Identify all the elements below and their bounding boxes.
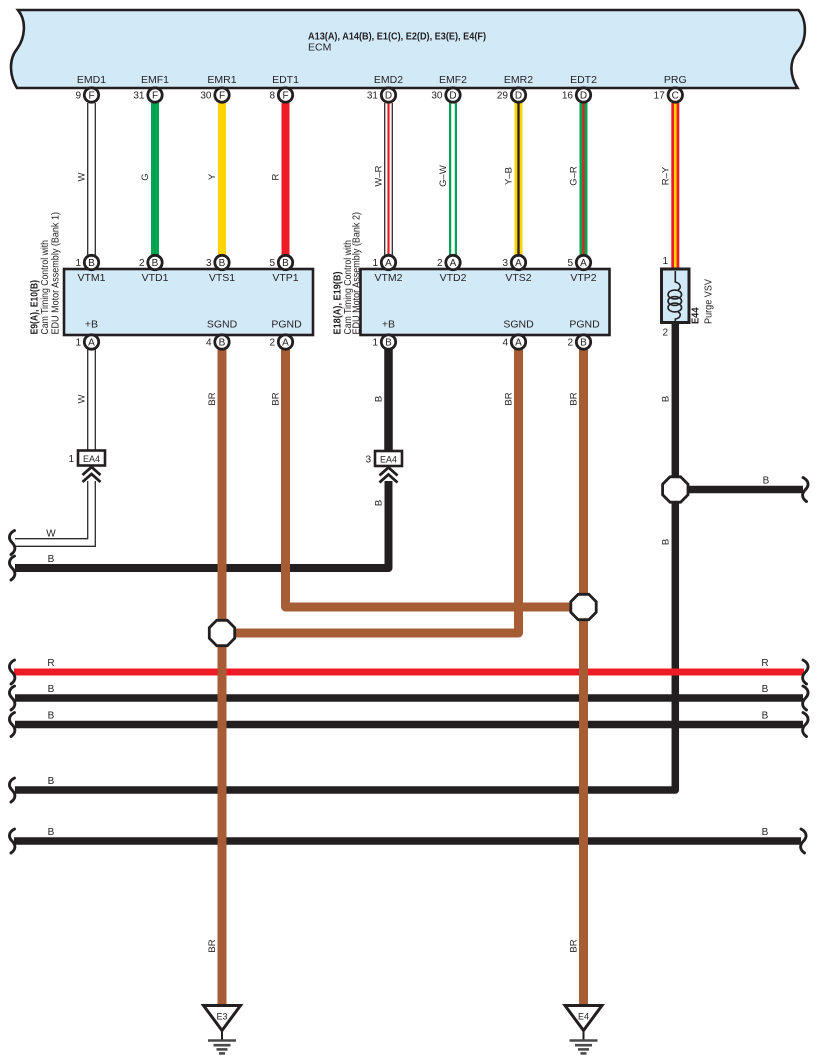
brace B left 568 xyxy=(9,556,14,580)
svg-text:F: F xyxy=(152,91,158,102)
ECM pin EMR2 29(D) xyxy=(497,74,533,102)
brace B right 724 xyxy=(803,713,808,737)
svg-text:30: 30 xyxy=(200,91,212,102)
brace R right xyxy=(803,660,808,684)
svg-text:PGND: PGND xyxy=(569,319,600,331)
svg-text:VTD2: VTD2 xyxy=(440,272,467,284)
wire BR PGND2 to ground E4 xyxy=(569,349,584,1006)
brace R left xyxy=(9,660,14,684)
ground E4 xyxy=(565,1006,602,1054)
svg-text:16: 16 xyxy=(562,91,574,102)
purge VSV coil xyxy=(668,271,682,321)
box top pin 2(B) xyxy=(139,255,162,269)
svg-text:B: B xyxy=(660,396,671,402)
purge VSV pin numbers xyxy=(662,256,668,339)
svg-text:R–Y: R–Y xyxy=(660,166,671,185)
brace B left 841 xyxy=(9,829,14,853)
svg-text:EDT2: EDT2 xyxy=(570,74,597,86)
svg-text:B: B xyxy=(763,476,770,487)
svg-text:B: B xyxy=(762,827,769,838)
ECM box xyxy=(11,10,805,88)
svg-text:B: B xyxy=(48,554,55,565)
component box E9/E10 Bank1 xyxy=(64,269,313,335)
svg-text:B: B xyxy=(48,776,55,787)
box bottom pin 2(B) xyxy=(567,335,590,349)
svg-text:A: A xyxy=(580,258,587,269)
svg-text:A: A xyxy=(282,338,289,349)
svg-text:A13(A), A14(B), E1(C), E2(D),: A13(A), A14(B), E1(C), E2(D), E3(E), E4(… xyxy=(308,31,486,43)
wire W +B1 to EA4-1 xyxy=(77,349,96,451)
brace B right 489 xyxy=(803,478,808,502)
ECM title xyxy=(308,31,486,54)
purge VSV rotated label xyxy=(691,279,715,324)
ECM pin EDT1 8(F) xyxy=(269,74,299,102)
svg-text:EMD2: EMD2 xyxy=(374,74,403,86)
svg-text:A: A xyxy=(88,338,95,349)
wire B bus 698 xyxy=(15,684,803,698)
label B bus 568 xyxy=(48,554,55,565)
box top pin 1(A) xyxy=(372,255,395,269)
svg-text:2: 2 xyxy=(139,258,145,269)
wire B VSV2 down to corner-left xyxy=(15,322,675,790)
svg-text:EDU Motor Assembly (Bank 2): EDU Motor Assembly (Bank 2) xyxy=(352,212,363,335)
svg-text:B: B xyxy=(762,711,769,722)
wire B EA4-3 down-left xyxy=(15,481,389,568)
svg-text:EMR1: EMR1 xyxy=(207,74,236,86)
svg-text:W: W xyxy=(77,172,88,181)
svg-text:B: B xyxy=(88,258,95,269)
wire G-W EMF2-VTD2 xyxy=(438,103,453,255)
svg-text:BR: BR xyxy=(271,392,282,405)
wire B bus 841 xyxy=(14,827,801,841)
svg-text:8: 8 xyxy=(269,91,275,102)
svg-text:SGND: SGND xyxy=(207,319,238,331)
svg-text:B: B xyxy=(48,684,55,695)
svg-text:E44: E44 xyxy=(691,307,702,324)
svg-text:PRG: PRG xyxy=(664,74,687,86)
component box E18/E19 Bank2 xyxy=(361,269,610,335)
brace B left 698 xyxy=(9,686,14,710)
svg-text:E9(A), E10(B): E9(A), E10(B) xyxy=(30,280,41,335)
ECM pin EMD2 31(D) xyxy=(367,74,403,102)
svg-text:R: R xyxy=(761,658,768,669)
wire Y-B EMR2-VTS2 xyxy=(504,103,519,255)
wire BR SGND1 to ground E3 xyxy=(207,349,222,1006)
svg-text:B: B xyxy=(152,258,159,269)
wire BR PGND1 to junction xyxy=(271,349,584,607)
box top pin 3(A) xyxy=(502,255,525,269)
svg-text:1: 1 xyxy=(372,338,378,349)
ECM pin EMF2 30(D) xyxy=(431,74,467,102)
svg-text:5: 5 xyxy=(567,258,573,269)
connector EA4 pin3 xyxy=(365,451,402,483)
junction node PGND xyxy=(571,594,596,619)
svg-text:A: A xyxy=(450,258,457,269)
brace W left xyxy=(9,531,14,555)
svg-text:D: D xyxy=(385,91,392,102)
E9/E10 rotated label xyxy=(30,212,62,335)
box top pin 3(B) xyxy=(206,255,229,269)
svg-text:1: 1 xyxy=(75,338,81,349)
svg-text:VTP1: VTP1 xyxy=(272,272,298,284)
ground E3 xyxy=(204,1006,241,1054)
svg-text:EMF2: EMF2 xyxy=(439,74,467,86)
E18/E19 rotated label xyxy=(333,212,363,335)
box bottom pin 1(A) xyxy=(75,335,98,349)
svg-text:1: 1 xyxy=(372,258,378,269)
svg-text:R: R xyxy=(47,658,54,669)
svg-text:3: 3 xyxy=(206,258,212,269)
svg-text:E4: E4 xyxy=(578,1012,589,1022)
svg-text:D: D xyxy=(449,91,456,102)
svg-text:PGND: PGND xyxy=(271,319,302,331)
svg-text:1: 1 xyxy=(662,256,668,267)
wire Y EMR1-VTS1 xyxy=(207,103,222,255)
svg-text:1: 1 xyxy=(68,454,74,465)
wire G-R EDT2-VTP2 xyxy=(569,103,584,255)
wire R-Y PRG-VSV xyxy=(660,103,675,269)
svg-text:F: F xyxy=(219,91,225,102)
svg-text:29: 29 xyxy=(497,91,509,102)
svg-text:EDT1: EDT1 xyxy=(272,74,299,86)
E18/E19 labels xyxy=(374,272,600,331)
brace B right 841 xyxy=(801,829,806,853)
svg-text:D: D xyxy=(515,91,522,102)
svg-text:EMD1: EMD1 xyxy=(77,74,106,86)
purge VSV E44 box xyxy=(662,269,690,323)
svg-text:+B: +B xyxy=(85,319,98,331)
wire W-R EMD2-VTM2 xyxy=(374,103,393,255)
connector EA4 pin1 xyxy=(68,451,105,483)
wire B +B2 to EA4-3 xyxy=(374,349,389,506)
svg-text:B: B xyxy=(282,258,289,269)
svg-text:G: G xyxy=(140,173,151,180)
svg-text:2: 2 xyxy=(269,338,275,349)
svg-text:Y–B: Y–B xyxy=(504,167,515,185)
ECM pin EMD1 9(F) xyxy=(75,74,106,102)
box bottom pin 1(B) xyxy=(372,335,395,349)
svg-text:2: 2 xyxy=(662,328,668,339)
wire B junction branch right xyxy=(675,476,803,490)
svg-text:EA4: EA4 xyxy=(83,454,100,464)
box top pin 2(A) xyxy=(437,255,460,269)
svg-text:BR: BR xyxy=(569,939,580,952)
svg-text:VTS1: VTS1 xyxy=(209,272,235,284)
label B bus 790 xyxy=(48,776,55,787)
svg-text:31: 31 xyxy=(367,91,379,102)
svg-text:VTM1: VTM1 xyxy=(77,272,105,284)
svg-text:1: 1 xyxy=(75,258,81,269)
svg-text:B: B xyxy=(374,500,385,506)
brace B left 790 xyxy=(9,778,14,802)
svg-text:SGND: SGND xyxy=(503,319,534,331)
svg-text:3: 3 xyxy=(502,258,508,269)
wire R bus 672 xyxy=(14,658,804,672)
svg-text:EDU Motor Assembly (Bank 1): EDU Motor Assembly (Bank 1) xyxy=(51,212,62,335)
svg-text:2: 2 xyxy=(567,338,573,349)
junction node B xyxy=(663,477,688,502)
svg-text:2: 2 xyxy=(437,258,443,269)
wire W EA4-1 down-left xyxy=(15,481,95,546)
svg-text:Purge VSV: Purge VSV xyxy=(704,279,715,324)
svg-text:W: W xyxy=(46,529,56,540)
svg-text:W–R: W–R xyxy=(374,165,385,186)
svg-text:B: B xyxy=(48,711,55,722)
box bottom pin 2(A) xyxy=(269,335,292,349)
svg-text:F: F xyxy=(88,91,94,102)
svg-text:4: 4 xyxy=(502,338,508,349)
svg-text:W: W xyxy=(77,394,88,403)
svg-text:A: A xyxy=(515,338,522,349)
svg-text:B: B xyxy=(219,338,226,349)
svg-text:B: B xyxy=(762,684,769,695)
svg-text:5: 5 xyxy=(269,258,275,269)
svg-text:17: 17 xyxy=(654,91,666,102)
svg-text:31: 31 xyxy=(133,91,145,102)
svg-text:B: B xyxy=(219,258,226,269)
ECM pin EDT2 16(D) xyxy=(562,74,597,102)
svg-text:Y: Y xyxy=(207,173,218,180)
svg-text:B: B xyxy=(660,539,671,545)
svg-text:+B: +B xyxy=(382,319,395,331)
brace B left 724 xyxy=(9,713,14,737)
svg-text:B: B xyxy=(580,338,587,349)
svg-text:VTM2: VTM2 xyxy=(374,272,402,284)
junction node SGND xyxy=(209,620,234,645)
svg-text:EMF1: EMF1 xyxy=(141,74,169,86)
wire BR SGND2 to junction xyxy=(222,349,519,633)
E9/E10 labels xyxy=(77,272,302,331)
svg-text:G–R: G–R xyxy=(569,166,580,186)
ECM pin PRG 17(C) xyxy=(654,74,687,102)
box top pin 5(B) xyxy=(269,255,292,269)
brace B right 698 xyxy=(803,686,808,710)
svg-text:B: B xyxy=(385,338,392,349)
svg-text:4: 4 xyxy=(206,338,212,349)
svg-text:B: B xyxy=(374,396,385,402)
svg-text:B: B xyxy=(48,827,55,838)
svg-text:EA4: EA4 xyxy=(380,455,397,465)
svg-text:BR: BR xyxy=(207,939,218,952)
wire R EDT1-VTP1 xyxy=(271,103,286,255)
svg-text:A: A xyxy=(515,258,522,269)
box bottom pin 4(B) xyxy=(206,335,229,349)
svg-text:30: 30 xyxy=(431,91,443,102)
svg-text:BR: BR xyxy=(569,392,580,405)
svg-text:A: A xyxy=(385,258,392,269)
box top pin 5(A) xyxy=(567,255,590,269)
svg-text:EMR2: EMR2 xyxy=(504,74,533,86)
ECM pin EMR1 30(F) xyxy=(200,74,236,102)
wire W EMD1-VTM1 xyxy=(77,103,96,255)
svg-text:ECM: ECM xyxy=(308,42,331,54)
svg-text:VTP2: VTP2 xyxy=(570,272,596,284)
svg-text:BR: BR xyxy=(504,392,515,405)
wire B bus 724 xyxy=(15,711,803,725)
svg-text:E18(A), E19(B): E18(A), E19(B) xyxy=(333,272,344,335)
svg-text:E3: E3 xyxy=(216,1012,227,1022)
svg-text:9: 9 xyxy=(75,91,81,102)
svg-text:VTS2: VTS2 xyxy=(505,272,531,284)
svg-text:Cam Timing Control with: Cam Timing Control with xyxy=(40,240,51,335)
svg-text:G–W: G–W xyxy=(438,165,449,187)
svg-text:R: R xyxy=(271,173,282,180)
svg-text:BR: BR xyxy=(207,392,218,405)
box bottom pin 4(A) xyxy=(502,335,525,349)
svg-text:C: C xyxy=(672,91,679,102)
svg-text:F: F xyxy=(282,91,288,102)
wire G EMF1-VTD1 xyxy=(140,103,155,255)
svg-text:VTD1: VTD1 xyxy=(142,272,169,284)
ECM pin EMF1 31(F) xyxy=(133,74,169,102)
svg-text:3: 3 xyxy=(365,455,371,466)
box top pin 1(B) xyxy=(75,255,98,269)
svg-text:D: D xyxy=(580,91,587,102)
